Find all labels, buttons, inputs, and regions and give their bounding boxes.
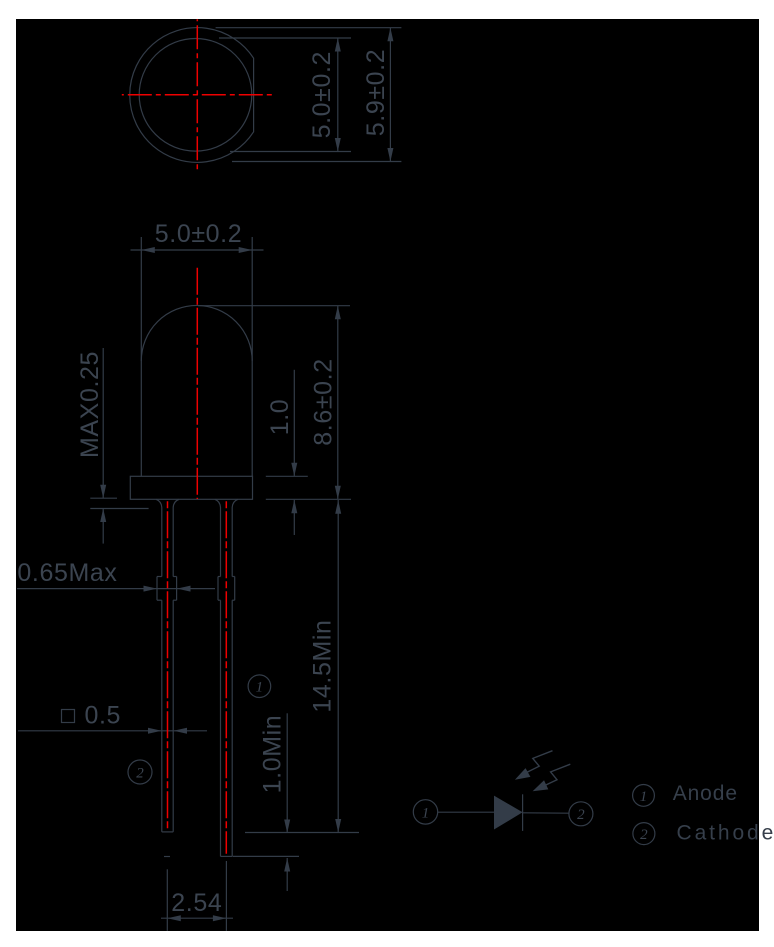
svg-text:5.0±0.2: 5.0±0.2 <box>155 220 242 248</box>
svg-text:2.54: 2.54 <box>171 889 222 917</box>
svg-text:1: 1 <box>640 789 648 805</box>
svg-text:1.0: 1.0 <box>266 399 294 436</box>
svg-text:1.0Min: 1.0Min <box>259 715 287 794</box>
svg-text:2: 2 <box>136 765 144 781</box>
svg-text:0.65Max: 0.65Max <box>17 559 117 587</box>
svg-text:2: 2 <box>577 807 585 823</box>
svg-text:2: 2 <box>640 827 648 843</box>
svg-text:Cathode: Cathode <box>677 822 774 845</box>
svg-text:14.5Min: 14.5Min <box>309 619 337 712</box>
svg-text:Anode: Anode <box>673 782 738 805</box>
svg-text:MAX0.25: MAX0.25 <box>76 351 104 458</box>
svg-text:1: 1 <box>422 805 430 821</box>
svg-text:5.0±0.2: 5.0±0.2 <box>308 51 336 138</box>
svg-text:5.9±0.2: 5.9±0.2 <box>362 49 390 136</box>
svg-text:1: 1 <box>256 680 264 696</box>
svg-text:8.6±0.2: 8.6±0.2 <box>310 358 338 445</box>
svg-text:0.5: 0.5 <box>85 702 122 730</box>
